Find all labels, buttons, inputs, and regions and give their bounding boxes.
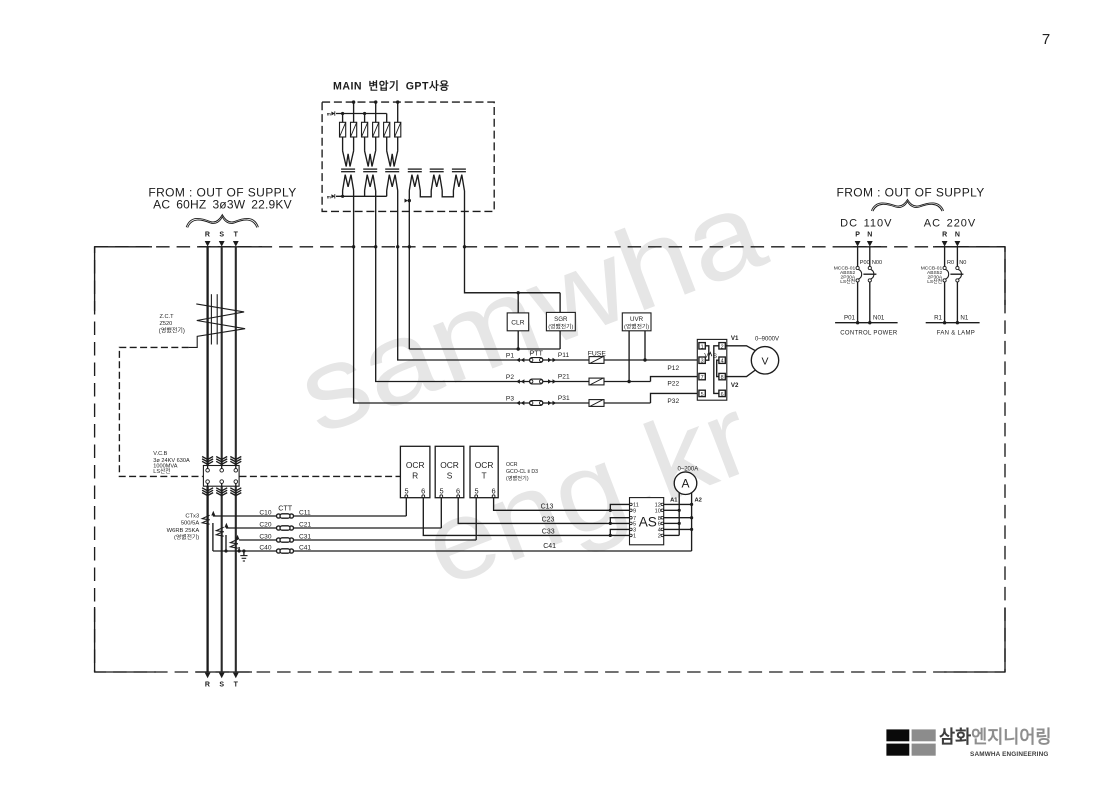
- svg-text:GCO-CL Ⅱ D3: GCO-CL Ⅱ D3: [506, 469, 538, 475]
- MCCB-01 DC label: [834, 266, 856, 285]
- VS terminal 4: [719, 357, 725, 365]
- fuse F1: [589, 357, 604, 364]
- wire P32 step: [651, 393, 700, 403]
- GPT secondary lead phase 2 to P2: [376, 191, 651, 382]
- PTT test terminal P2: [516, 379, 556, 384]
- svg-text:3: 3: [701, 359, 704, 365]
- svg-text:S: S: [447, 470, 453, 480]
- CLR box: [507, 313, 529, 331]
- svg-text:SGR: SGR: [554, 316, 568, 323]
- svg-text:10: 10: [655, 509, 661, 515]
- broken-delta series link a-b: [420, 191, 431, 197]
- svg-text:C41: C41: [543, 543, 556, 550]
- svg-text:6: 6: [421, 487, 425, 496]
- svg-text:2: 2: [721, 344, 724, 350]
- svg-text:C40: C40: [259, 545, 271, 552]
- VCB draw-out chevrons bottom S: [216, 488, 227, 496]
- svg-text:5: 5: [701, 392, 704, 398]
- wires resistors to primary windings: [343, 137, 398, 151]
- junction dot border crossing c2: [352, 245, 355, 248]
- broken-delta left lead: [408, 191, 410, 350]
- junction dot C40 tap S: [224, 549, 227, 552]
- GPT secondary winding phase 1: [343, 175, 354, 191]
- GPT secondary lead phase 1 to P3: [354, 191, 651, 404]
- MCCB AC tie bar: [950, 273, 963, 275]
- resistor R5: [384, 122, 390, 137]
- AS step link 9-11: [610, 504, 631, 510]
- ground symbol: [240, 551, 247, 561]
- feeder arrowhead T: [233, 241, 239, 247]
- UVR lead to P1: [644, 331, 646, 360]
- AS step link 5-7: [610, 518, 631, 524]
- junction dot border crossing c4: [374, 245, 377, 248]
- UVR box: [622, 313, 651, 331]
- brace under left header: [186, 215, 258, 228]
- junction dot AS 1: [609, 534, 612, 537]
- svg-text:(영뱴전기): (영뱴전기): [174, 533, 199, 541]
- svg-text:OCR: OCR: [506, 462, 518, 468]
- GPT broken-delta winding b: [431, 175, 442, 191]
- svg-text:2: 2: [658, 534, 661, 540]
- svg-text:N0: N0: [959, 260, 966, 266]
- OCR T relay box: [470, 446, 498, 497]
- AS right stub 2 to A1: [664, 534, 680, 536]
- svg-text:MAIN 변압기 GPT사용: MAIN 변압기 GPT사용: [333, 80, 449, 93]
- GPT primary feeder wire phase 1: [353, 102, 355, 122]
- broken-delta right lead: [465, 191, 561, 293]
- wire C30: [239, 539, 476, 541]
- wire A1: [678, 493, 680, 536]
- VS terminal 6: [719, 390, 725, 398]
- broken-delta series link b-c: [442, 191, 453, 197]
- fuse F2: [589, 378, 604, 385]
- svg-text:C41: C41: [299, 545, 311, 552]
- VS terminal 5: [699, 390, 705, 398]
- GPT core phase 2: [363, 169, 377, 172]
- svg-text:(영뱴전기): (영뱴전기): [548, 322, 573, 330]
- GPT broken-delta winding c: [453, 175, 464, 191]
- GPT neutral terminal top m: [327, 111, 335, 116]
- resistor R3: [362, 122, 368, 137]
- AS right pins 12 10 8 6 4 2: [655, 503, 664, 540]
- svg-text:P32: P32: [667, 398, 679, 405]
- junction dot C40 tap T: [238, 549, 241, 552]
- svg-text:5: 5: [440, 487, 444, 496]
- wire P down: [857, 247, 859, 267]
- CT S chevron symbol: [216, 527, 223, 536]
- ZCT zero-phase CT: [189, 294, 245, 347]
- wire OCR T pin5 to C31: [475, 498, 477, 540]
- svg-text:UVR: UVR: [630, 316, 644, 323]
- CTT test terminal C1: [277, 514, 294, 518]
- svg-text:N00: N00: [872, 260, 882, 266]
- svg-text:AC 220V: AC 220V: [924, 218, 977, 230]
- svg-text:6: 6: [492, 487, 496, 496]
- neutral stubs from secondary windings: [343, 191, 387, 197]
- GPT secondary winding phase 3: [387, 175, 398, 191]
- VCB trip link dashed wire to OCR: [240, 475, 401, 477]
- svg-text:FROM : OUT OF SUPPLY: FROM : OUT OF SUPPLY: [836, 185, 984, 199]
- svg-text:6: 6: [721, 392, 724, 398]
- svg-text:N01: N01: [873, 314, 885, 321]
- resistor R2: [351, 122, 357, 137]
- CT T chevron symbol: [230, 539, 237, 548]
- VS terminal 3: [699, 357, 705, 365]
- GPT tertiary core a: [408, 169, 422, 172]
- svg-text:P21: P21: [558, 374, 570, 381]
- arrowhead N: [867, 241, 873, 247]
- GPT dashed enclosure: [322, 102, 494, 211]
- MCCB-01 AC label: [921, 266, 943, 285]
- junction dot open-delta terminal: [408, 199, 411, 202]
- CT R polarity mark: [211, 511, 215, 516]
- svg-text:S: S: [219, 682, 224, 689]
- bus line T: [235, 247, 237, 466]
- CT secondary return taps to common: [213, 523, 239, 551]
- svg-text:4: 4: [721, 359, 724, 365]
- svg-text:C21: C21: [299, 522, 311, 529]
- VS terminal 8: [719, 373, 725, 381]
- wire N down: [869, 247, 871, 267]
- wire C20: [226, 527, 441, 529]
- svg-text:V.C.B: V.C.B: [153, 451, 167, 457]
- junction dot CLR bottom: [517, 347, 520, 350]
- wire VS to voltmeter bottom: [725, 370, 755, 377]
- svg-text:P: P: [855, 231, 860, 238]
- wire C10: [213, 515, 406, 517]
- svg-text:T: T: [482, 470, 487, 480]
- AS left pins 11 9 7 5 3 1: [630, 503, 639, 540]
- svg-text:P11: P11: [558, 352, 570, 359]
- VS terminal 1: [699, 343, 705, 351]
- svg-text:8: 8: [721, 375, 724, 381]
- control power bus: [835, 322, 898, 324]
- GPT tertiary core c: [452, 169, 466, 172]
- svg-text:R: R: [205, 682, 210, 689]
- VCB draw-out chevrons bottom R: [202, 488, 213, 496]
- svg-text:삼화엔지니어링: 삼화엔지니어링: [939, 727, 1052, 747]
- svg-text:T: T: [234, 232, 239, 239]
- junction dot P01: [856, 321, 859, 324]
- svg-text:Z.C.T: Z.C.T: [160, 314, 175, 320]
- svg-text:V2: V2: [731, 382, 739, 389]
- wire P01 down: [857, 282, 859, 323]
- wire P22 step: [651, 377, 700, 382]
- GPT secondary winding phase 2: [365, 175, 376, 191]
- AS right stub 10 to A1: [664, 509, 680, 511]
- svg-text:LS산전: LS산전: [840, 278, 855, 285]
- AS step link 1-3: [610, 529, 631, 535]
- bus line R: [206, 247, 208, 466]
- svg-text:1: 1: [633, 534, 636, 540]
- svg-text:N: N: [955, 231, 960, 238]
- feeder arrowhead R: [205, 241, 211, 247]
- AS right stub 6 to A1: [664, 522, 680, 524]
- VS terminal 7: [699, 373, 705, 381]
- stub c5: [386, 114, 388, 123]
- MCCB-01 AC pole R: [943, 266, 949, 282]
- AS ammeter selector box: [630, 498, 664, 545]
- CT R chevron symbol: [202, 515, 209, 524]
- svg-text:T: T: [234, 682, 239, 689]
- junction dot GPT top 2: [374, 100, 377, 103]
- GPT primary winding phase 1: [343, 151, 354, 167]
- svg-text:A: A: [681, 477, 689, 491]
- svg-text:N: N: [867, 231, 872, 238]
- svg-text:C13: C13: [541, 504, 554, 511]
- svg-text:R: R: [942, 231, 947, 238]
- junction dot UVR-P2: [627, 380, 630, 383]
- wire OCR R pin5 to C11: [405, 498, 407, 516]
- wire C40 common: [213, 550, 692, 552]
- arrowhead P: [855, 241, 861, 247]
- svg-text:500/5A: 500/5A: [181, 521, 200, 527]
- GPT core phase 1: [341, 169, 355, 172]
- bottom arrowhead T: [233, 673, 239, 679]
- arrowhead R: [942, 241, 948, 247]
- svg-text:R: R: [412, 470, 418, 480]
- CTT test terminal C4: [277, 549, 294, 553]
- ammeter A: [674, 472, 697, 495]
- svg-text:(영뱴전기): (영뱴전기): [159, 326, 185, 334]
- VS voltmeter selector box: [697, 339, 727, 400]
- svg-text:1: 1: [701, 344, 704, 350]
- svg-text:CTx3: CTx3: [185, 514, 199, 520]
- junction dot tie c1: [341, 112, 344, 115]
- CLR bottom lead: [517, 331, 519, 349]
- svg-text:7: 7: [1042, 31, 1050, 48]
- junction dot N01: [868, 321, 871, 324]
- junction dot border crossing a: [408, 245, 411, 248]
- resistor R6: [395, 122, 401, 137]
- CT S polarity mark: [224, 523, 228, 528]
- svg-text:(영뱴전기): (영뱴전기): [506, 474, 529, 482]
- svg-text:CTT: CTT: [278, 504, 293, 513]
- AS right stub 4 to A2: [664, 528, 692, 530]
- svg-text:P12: P12: [667, 365, 679, 372]
- CT label block: [167, 514, 200, 542]
- SGR top lead: [559, 293, 561, 313]
- MCCB-01 DC pole P: [856, 266, 862, 282]
- svg-text:OCR: OCR: [440, 460, 459, 470]
- svg-text:7: 7: [701, 375, 704, 381]
- svg-text:5: 5: [405, 487, 409, 496]
- wire N2 down: [956, 247, 958, 267]
- main dashed border: [95, 247, 1005, 672]
- arrowhead N2: [955, 241, 961, 247]
- svg-text:S: S: [713, 353, 717, 360]
- svg-text:5: 5: [474, 487, 478, 496]
- svg-text:V1: V1: [731, 335, 739, 342]
- svg-text:6: 6: [456, 487, 460, 496]
- VCB breaker box: [203, 466, 239, 487]
- wire R down: [944, 247, 946, 267]
- open-delta terminal mark: [405, 199, 409, 203]
- VCB contact circles: [206, 466, 238, 486]
- CTT test terminal C3: [277, 538, 294, 542]
- svg-text:R1: R1: [934, 314, 942, 321]
- svg-text:N1: N1: [960, 314, 968, 321]
- VS internal link 2-6: [714, 346, 719, 394]
- VS internal link 1-3: [705, 346, 709, 360]
- GPT secondary neutral tie wire: [336, 195, 387, 197]
- CTT test terminal C2: [277, 526, 294, 530]
- OCR S relay box: [435, 446, 464, 497]
- GPT primary feeder wire phase 2: [375, 102, 377, 122]
- MCCB-01 DC pole N: [868, 266, 874, 282]
- GPT core phase 3: [385, 169, 399, 172]
- resistor R4: [373, 122, 379, 137]
- svg-text:P31: P31: [558, 395, 570, 402]
- bottom arrowhead S: [219, 673, 225, 679]
- GPT primary winding phase 3: [387, 151, 398, 167]
- ZCT label: [159, 314, 185, 335]
- VCB draw-out chevrons top R: [202, 457, 213, 465]
- stub c3: [364, 114, 366, 123]
- GPT secondary lead phase 3 to P1: [398, 191, 699, 361]
- junction dot tie c3: [363, 112, 366, 115]
- GPT tertiary core b: [430, 169, 444, 172]
- svg-text:0–9000V: 0–9000V: [755, 337, 779, 343]
- GPT neutral terminal bottom m: [327, 194, 335, 199]
- MCCB DC tie bar: [863, 273, 876, 275]
- wire N1 down: [956, 282, 958, 323]
- svg-text:C23: C23: [542, 517, 555, 524]
- svg-text:FAN & LAMP: FAN & LAMP: [937, 331, 975, 337]
- resistor R1: [340, 122, 346, 137]
- AS right stub 8 to A2: [664, 517, 692, 519]
- svg-text:P22: P22: [667, 381, 679, 388]
- svg-text:PTT: PTT: [530, 351, 544, 358]
- svg-text:9: 9: [633, 509, 636, 515]
- fuse F3: [589, 400, 604, 407]
- junction dot AS 9: [609, 509, 612, 512]
- wire OCR S pin5 to C21: [440, 498, 442, 528]
- feeder arrowhead S: [219, 241, 225, 247]
- relay top tie wire (net A): [465, 292, 561, 294]
- junction dot N1: [956, 321, 959, 324]
- junction dot CLR top: [517, 291, 520, 294]
- voltmeter V: [751, 347, 778, 374]
- svg-text:P1: P1: [506, 353, 514, 360]
- svg-text:P2: P2: [506, 374, 514, 381]
- PTT test terminal P1: [516, 358, 556, 363]
- bus line S: [221, 247, 223, 466]
- PTT test terminal P3: [516, 401, 556, 406]
- svg-text:C11: C11: [299, 510, 311, 517]
- VCB draw-out chevrons bottom T: [230, 488, 241, 496]
- VS internal link 4-8: [717, 360, 719, 376]
- svg-text:S: S: [219, 232, 224, 239]
- VCB label: [153, 451, 190, 475]
- junction dot border crossing c6: [396, 245, 399, 248]
- VCB draw-out chevrons top S: [216, 457, 227, 465]
- junction dot border crossing b: [463, 245, 466, 248]
- relay bottom tie wire (net N): [409, 348, 560, 350]
- fan lamp bus: [926, 322, 980, 324]
- wire R1 down: [944, 282, 946, 323]
- OCR R relay box: [400, 446, 430, 497]
- svg-text:CONTROL POWER: CONTROL POWER: [840, 331, 898, 337]
- svg-text:OCR: OCR: [406, 460, 425, 470]
- wire N01 down: [869, 282, 871, 323]
- svg-text:C31: C31: [299, 534, 311, 541]
- GPT primary winding phase 2: [365, 151, 376, 167]
- junction dot GPT top 3: [396, 100, 399, 103]
- brace under right header: [871, 200, 943, 212]
- svg-text:AS: AS: [639, 514, 657, 529]
- svg-text:V: V: [761, 355, 768, 367]
- junction dot C40 ground: [242, 549, 245, 552]
- svg-text:W6RB 25KA: W6RB 25KA: [167, 528, 200, 534]
- VCB draw-out chevrons top T: [230, 457, 241, 465]
- svg-text:C20: C20: [259, 522, 271, 529]
- svg-text:(영뱴전기): (영뱴전기): [624, 322, 649, 330]
- svg-text:C10: C10: [259, 510, 271, 517]
- VS terminal 2: [719, 343, 725, 351]
- bottom arrowhead R: [205, 673, 211, 679]
- svg-text:LS산전: LS산전: [927, 278, 942, 285]
- svg-text:CLR: CLR: [511, 320, 524, 327]
- junction dot R1: [943, 321, 946, 324]
- svg-text:Z520: Z520: [160, 321, 173, 327]
- GPT top tie wire: [336, 113, 387, 115]
- AS right stub 12 to A2: [664, 503, 692, 505]
- wire VS to voltmeter top: [725, 346, 755, 351]
- svg-text:A1: A1: [670, 497, 678, 503]
- SGR box: [546, 312, 575, 330]
- svg-text:LS산전: LS산전: [153, 467, 170, 475]
- watermark samwha eng.kr: [281, 163, 848, 632]
- svg-text:C33: C33: [542, 529, 555, 536]
- svg-text:OCR: OCR: [475, 460, 494, 470]
- svg-text:AC 60HZ 3ø3W 22.9KV: AC 60HZ 3ø3W 22.9KV: [153, 197, 292, 211]
- svg-text:DC 110V: DC 110V: [840, 218, 892, 230]
- CT T polarity mark: [236, 535, 240, 540]
- GPT broken-delta winding a: [409, 175, 420, 191]
- svg-text:P3: P3: [506, 396, 514, 403]
- junction dot neutral c1: [341, 195, 344, 198]
- wire C33 from OCR R pin6: [423, 498, 631, 536]
- wire C23 from OCR S pin6: [458, 498, 631, 524]
- svg-text:C30: C30: [259, 534, 271, 541]
- junction dot GPT top 1: [352, 100, 355, 103]
- svg-text:R: R: [205, 232, 210, 239]
- OCR type label: [506, 462, 538, 482]
- Samwha logo squares: [886, 729, 935, 755]
- UVR lead to P2: [628, 331, 630, 382]
- junction dot UVR-P1: [643, 358, 646, 361]
- svg-text:SAMWHA ENGINEERING: SAMWHA ENGINEERING: [970, 751, 1048, 758]
- CLR top lead: [517, 293, 519, 313]
- svg-text:A2: A2: [695, 497, 702, 503]
- stub c1: [342, 114, 344, 123]
- wire C13 from OCR T pin6: [494, 498, 631, 511]
- SGR bottom lead: [559, 331, 561, 349]
- MCCB-01 AC pole N: [956, 266, 962, 282]
- svg-text:R0: R0: [947, 260, 954, 266]
- svg-text:P00: P00: [860, 260, 870, 266]
- svg-text:P01: P01: [844, 314, 856, 321]
- wire A2: [691, 493, 693, 551]
- GPT primary feeder wire phase 3: [397, 102, 399, 122]
- junction dot AS 5: [609, 522, 612, 525]
- ZCT trip link dashed wire: [119, 347, 202, 476]
